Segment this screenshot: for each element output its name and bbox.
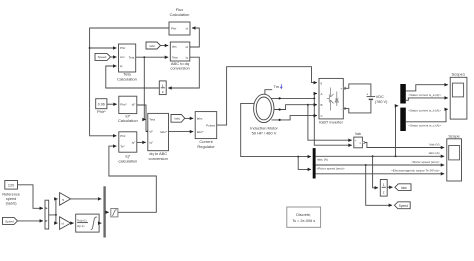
- wire iq feedback from ABC-dq output into unit delay: [168, 57, 199, 88]
- block bus selector bar (machine measurements): [313, 148, 316, 178]
- svg-text:conversion: conversion: [149, 156, 168, 161]
- svg-text:Iabc*: Iabc*: [160, 130, 168, 134]
- svg-text:Speed: Speed: [5, 219, 14, 223]
- svg-text:Discrete,: Discrete,: [296, 213, 311, 217]
- block iq* calculation: [118, 132, 137, 164]
- svg-text:conversion: conversion: [170, 66, 189, 71]
- wire id feedback into Flux Calculation: [190, 28, 200, 47]
- svg-text:B: B: [321, 103, 323, 107]
- node Iabc junction to stator demux: [395, 155, 397, 157]
- block id* Calculation: [118, 96, 138, 123]
- gain triangle 2: [60, 217, 71, 230]
- wire Iabc (A) signal to Scope: [316, 155, 445, 157]
- IGBT symbol icon: [327, 88, 339, 111]
- block ABC to dq conversion: [170, 42, 190, 71]
- svg-text:Iabc: Iabc: [149, 44, 155, 48]
- wire stator current is_a to Scope1: [406, 85, 448, 91]
- node Phir branch junction: [89, 47, 91, 49]
- svg-text:speed: speed: [6, 197, 16, 201]
- wire id* output to dq-ABC id* input: [137, 105, 146, 131]
- component DC source VDC battery: [366, 92, 388, 104]
- svg-text:Calculation: Calculation: [170, 12, 190, 17]
- svg-text:Ts = 2e-006 s: Ts = 2e-006 s: [292, 219, 315, 223]
- wire 0.96 to id* Calculation: [107, 103, 117, 105]
- svg-text:Scope1: Scope1: [452, 72, 466, 77]
- svg-text:<Stator current is_a (A)>: <Stator current is_a (A)>: [408, 93, 441, 97]
- wire Pulses to IGBT inverter gate: [217, 67, 317, 125]
- wire Phir branch to Teta Calculation: [90, 47, 117, 49]
- wire Speed tag to sum: [18, 220, 44, 222]
- svg-text:2(p-1): 2(p-1): [77, 224, 85, 228]
- svg-text:1: 1: [383, 183, 385, 187]
- svg-text:+: +: [366, 92, 368, 96]
- svg-text:z: z: [162, 90, 164, 94]
- svg-text:Teta: Teta: [129, 55, 135, 59]
- svg-text:Phir: Phir: [171, 27, 176, 31]
- wire Iabc* output to Current Regulator: [169, 131, 194, 133]
- svg-text:Speed: Speed: [399, 204, 408, 208]
- node junction A: [313, 97, 315, 99]
- svg-text:Teta: Teta: [123, 71, 131, 76]
- From tag Speed (top): [95, 53, 111, 60]
- gain triangle 1: [60, 193, 71, 206]
- wire motor m output down to bus bar: [241, 103, 311, 156]
- block Scope1: [450, 72, 467, 120]
- svg-text:Phir: Phir: [120, 134, 125, 138]
- svg-text:Iabc: Iabc: [401, 186, 407, 190]
- svg-text:Speed: Speed: [98, 55, 107, 59]
- wire motor terminal A to inverter A and Vab -: [271, 94, 317, 99]
- svg-text:calculation: calculation: [118, 159, 137, 164]
- svg-text:IGBT Inverter: IGBT Inverter: [319, 119, 344, 124]
- svg-text:Iabc*: Iabc*: [197, 130, 205, 134]
- svg-text:Teta: Teta: [149, 118, 155, 122]
- svg-text:0.96: 0.96: [98, 102, 105, 106]
- wire m branch to bus bar input 2: [298, 157, 311, 170]
- svg-text:Calculation: Calculation: [118, 118, 138, 123]
- svg-text:-: -: [341, 107, 342, 111]
- svg-text:120: 120: [8, 184, 14, 188]
- wire Electromagnetic torque signal to Scope: [316, 173, 445, 175]
- block unit delay 1/z (Iabc goto): [380, 180, 387, 197]
- wire Rotor speed signal to Scope: [316, 164, 445, 166]
- svg-text:<Stator current is_c (A)>: <Stator current is_c (A)>: [408, 124, 441, 128]
- wire sum output split to gains: [49, 199, 58, 215]
- wire stator current is_b to Scope1: [406, 98, 448, 100]
- svg-text:VDC: VDC: [376, 95, 384, 99]
- block rate limiter: [111, 209, 118, 217]
- Goto tag Iabc: [395, 184, 411, 191]
- svg-text:abc: abc: [172, 45, 177, 49]
- wire inverter + to DC source: [343, 84, 371, 96]
- svg-text:Calculation: Calculation: [117, 77, 137, 82]
- svg-text:+: +: [340, 87, 342, 91]
- wire Iabc tag to abc input: [161, 45, 169, 47]
- svg-text:iq: iq: [186, 55, 189, 59]
- wire PI output to mux: [99, 222, 101, 224]
- svg-text:50 HP / 460 V: 50 HP / 460 V: [252, 130, 277, 135]
- wire Vab output to Scope input 1: [365, 143, 445, 148]
- svg-text:Regulator: Regulator: [197, 144, 215, 149]
- wire gain2 to PI controller: [71, 222, 74, 224]
- svg-text:iq: iq: [120, 64, 123, 68]
- svg-text:Vab (V): Vab (V): [429, 143, 439, 147]
- wire motor terminal B to inverter B and Vab +: [274, 105, 317, 110]
- wire Te* from rate limiter to iq* calculation: [109, 146, 156, 212]
- svg-text:Phir: Phir: [120, 46, 125, 50]
- svg-text:wm: wm: [120, 55, 125, 59]
- svg-text:Iabc (A): Iabc (A): [317, 157, 328, 161]
- wire gain1 to mux: [71, 198, 102, 200]
- block sum (speed error): [45, 200, 49, 229]
- wire Phir feedback long (Flux Calc output to Teta Calc and iq* calc): [90, 28, 169, 136]
- wire 120 to sum: [18, 185, 44, 209]
- block Scope: [447, 133, 462, 181]
- svg-text:(780 V): (780 V): [375, 100, 388, 104]
- svg-text:-: -: [355, 145, 356, 148]
- From tag Speed (bottom): [3, 217, 18, 224]
- svg-text:<Electromagnetic torque Te (N*: <Electromagnetic torque Te (N*m)>: [391, 169, 440, 173]
- wire motor terminal C to inverter C: [272, 116, 318, 120]
- block constant 120: [2, 181, 20, 206]
- From tag Iabc (middle): [171, 115, 185, 123]
- wire Speed tag to wm input: [111, 56, 117, 58]
- svg-text:Iabc: Iabc: [174, 117, 180, 121]
- block Induction Motor: [250, 94, 278, 135]
- svg-text:z: z: [383, 191, 385, 195]
- block demux stator currents (black bars): [400, 84, 406, 104]
- svg-text:<Rotor speed (wm)>: <Rotor speed (wm)>: [411, 160, 439, 164]
- svg-text:Vab: Vab: [355, 132, 361, 136]
- svg-text:Reference: Reference: [2, 193, 20, 197]
- svg-text:<Stator current is_b (A)>: <Stator current is_b (A)>: [408, 109, 441, 113]
- wire inverter - to DC source: [343, 100, 371, 113]
- svg-text:A: A: [321, 92, 323, 96]
- block Vab voltage measurement: [354, 132, 365, 148]
- wire unit delay output to iq input of Teta Calculation: [106, 66, 160, 88]
- node m junction: [297, 156, 299, 158]
- wire Iabc branch down to unit delay 2: [373, 156, 378, 188]
- Goto tag Speed: [394, 202, 410, 209]
- svg-text:<Rotor speed (wm)>: <Rotor speed (wm)>: [317, 167, 345, 171]
- svg-text:Iabc: Iabc: [197, 117, 203, 121]
- wire Tm stub: [265, 90, 272, 95]
- node Teta junction: [143, 56, 145, 58]
- node Iabc junction to demux: [372, 155, 374, 157]
- block mux (torque/flux references): [103, 186, 105, 237]
- wire mux to rate limiter: [106, 211, 109, 213]
- svg-text:Te(p+1): Te(p+1): [77, 219, 87, 223]
- wire Iabc tag to Current Regulator: [185, 117, 193, 119]
- block IGBT Inverter: [319, 78, 344, 124]
- block Current Regulator: [195, 112, 217, 150]
- svg-text:Iabc (A): Iabc (A): [429, 151, 440, 155]
- svg-text:1: 1: [162, 84, 164, 88]
- svg-text:id: id: [186, 27, 189, 31]
- wire Teta output to ABC-dq and down to dq-ABC: [136, 56, 169, 58]
- block Teta Calculation: [117, 44, 137, 82]
- wire Teta branch down to dq to ABC conversion: [144, 57, 146, 119]
- wire unit delay to Goto Iabc: [387, 186, 392, 188]
- svg-text:Phir*: Phir*: [120, 102, 127, 106]
- block Flux Calculation: [169, 7, 190, 35]
- svg-text:id: id: [186, 45, 189, 49]
- block dq to ABC conversion: [148, 113, 169, 161]
- block PI speed controller with saturation: [76, 214, 99, 232]
- svg-text:Phir*: Phir*: [97, 109, 106, 114]
- node rotor speed junction: [365, 164, 367, 166]
- block constant 0.96: [96, 99, 107, 114]
- node inverter port squares: [343, 87, 345, 89]
- wire rotor speed branch down to Goto Speed: [366, 165, 392, 205]
- wire stator current is_c to Scope1: [406, 109, 448, 122]
- svg-text:Tm: Tm: [274, 84, 280, 89]
- svg-text:(rad/s): (rad/s): [6, 202, 18, 206]
- block powergui annotation: [287, 207, 321, 227]
- svg-text:Pulses: Pulses: [206, 123, 216, 127]
- node junction B: [307, 104, 309, 106]
- svg-text:Teta: Teta: [172, 55, 178, 59]
- block unit delay 1/z (iq): [159, 81, 166, 95]
- wire iq* output to dq-ABC iq* input: [137, 141, 146, 143]
- From tag Iabc (top): [146, 42, 161, 49]
- wire Iabc up to stator-currents demux: [396, 106, 399, 157]
- svg-text:Scope: Scope: [448, 133, 460, 138]
